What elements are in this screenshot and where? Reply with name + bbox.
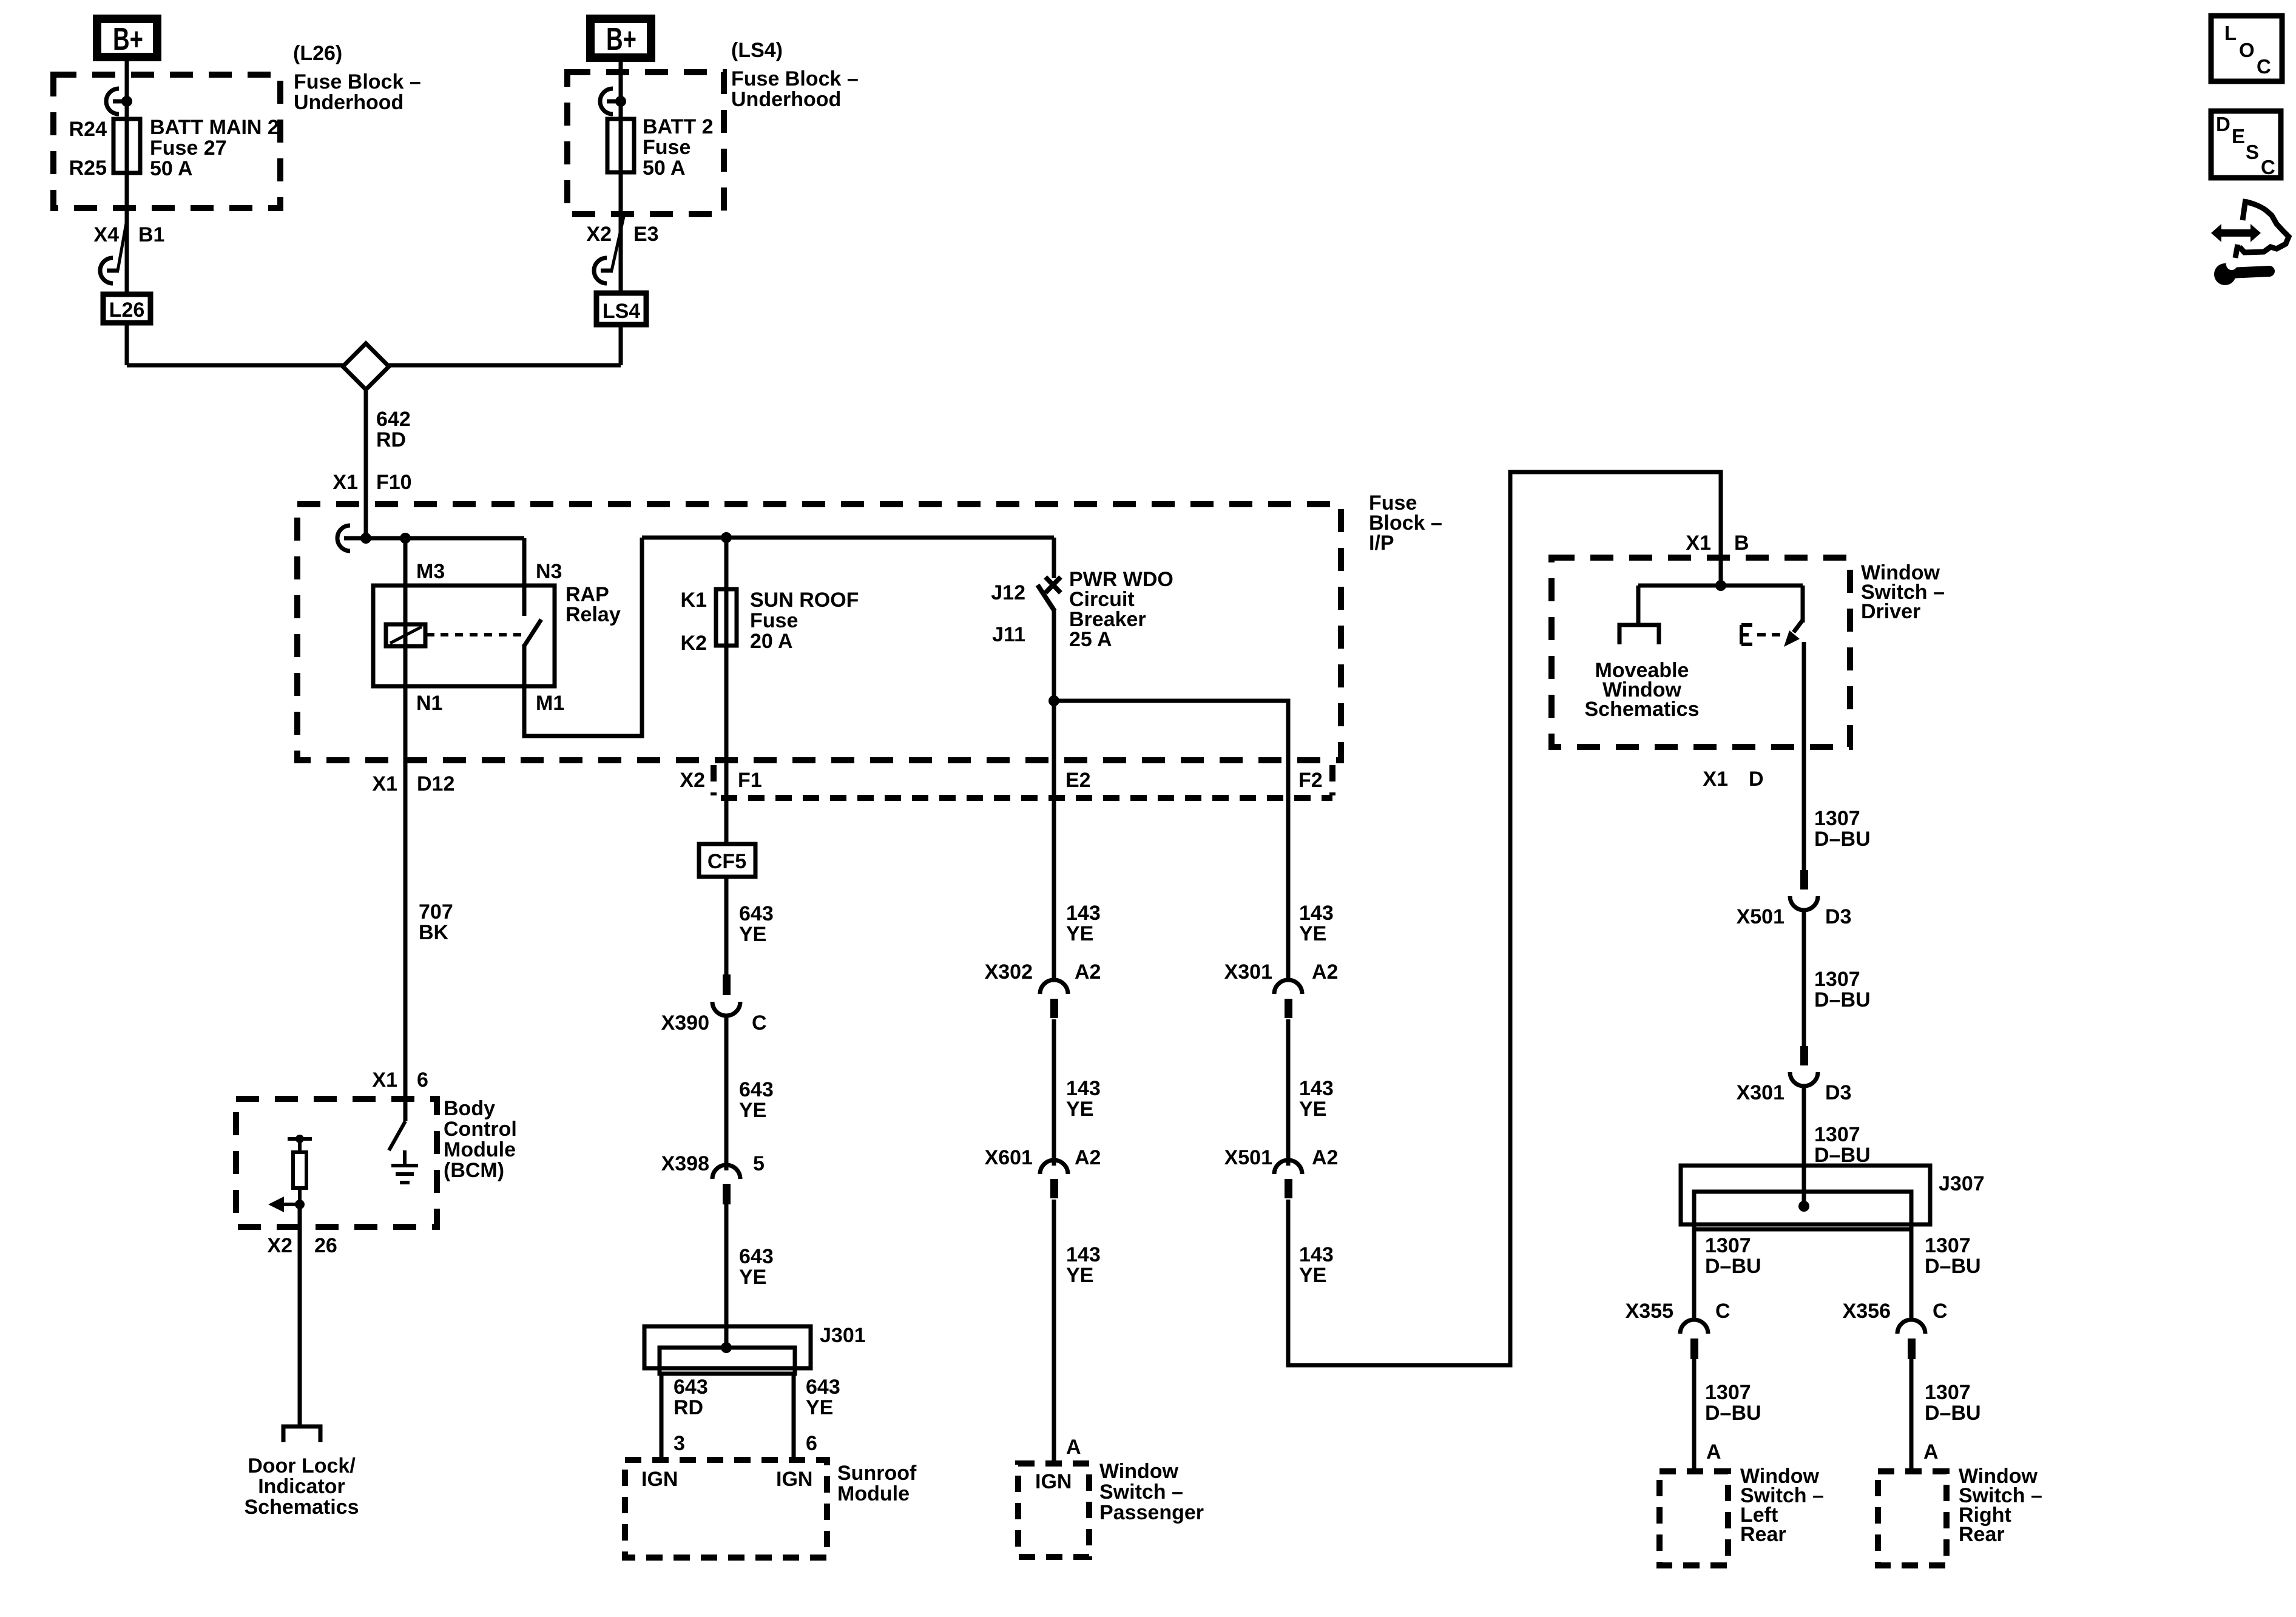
- wire 143 YE lower passenger: [1052, 1200, 1056, 1463]
- svg-text:D: D: [2216, 113, 2230, 135]
- wire 1307 D-BU right leg: [1909, 1229, 1914, 1320]
- svg-text:X398: X398: [661, 1152, 709, 1175]
- svg-text:B+: B+: [113, 22, 143, 57]
- svg-text:IGN: IGN: [1035, 1470, 1072, 1493]
- inline connector X501 A2: [1274, 1160, 1302, 1174]
- splice pack J307: [1681, 1166, 1930, 1224]
- BCM internal switch to ground: [389, 1121, 405, 1150]
- svg-text:X355: X355: [1626, 1300, 1673, 1323]
- wire driver switch output: [1802, 642, 1806, 870]
- svg-text:X356: X356: [1843, 1300, 1891, 1323]
- svg-text:Fuse: Fuse: [750, 609, 798, 632]
- wire branch to F2: [1054, 701, 1288, 978]
- power feed B+ (left): [97, 19, 157, 57]
- driver switch blade with arrow: [1794, 620, 1803, 632]
- svg-text:O: O: [2239, 39, 2255, 61]
- svg-text:(L26): (L26): [293, 42, 342, 65]
- svg-text:643: 643: [806, 1376, 840, 1399]
- svg-text:X2: X2: [267, 1234, 292, 1257]
- svg-text:(BCM): (BCM): [444, 1159, 504, 1182]
- BCM dashed box: [236, 1099, 437, 1227]
- svg-text:1307: 1307: [1925, 1381, 1971, 1404]
- svg-text:Indicator: Indicator: [258, 1475, 345, 1498]
- svg-text:X501: X501: [1737, 905, 1784, 928]
- svg-text:1307: 1307: [1705, 1381, 1751, 1404]
- sunroof module dashed box: [625, 1460, 827, 1558]
- wire 642 RD down to I/P fuse block: [364, 388, 368, 538]
- svg-text:CF5: CF5: [707, 850, 746, 873]
- wire 643 YE from F1 to CF5: [724, 760, 729, 844]
- wire 643 YE leg: [792, 1374, 796, 1460]
- svg-text:143: 143: [1299, 1243, 1334, 1266]
- svg-text:C: C: [1715, 1300, 1730, 1323]
- terminal hook at F10 entry: [337, 525, 366, 551]
- svg-text:J11: J11: [992, 623, 1025, 646]
- svg-text:X2: X2: [680, 769, 705, 792]
- window switch passenger dashed box: [1018, 1463, 1089, 1557]
- wire to relay coil M3: [403, 538, 408, 760]
- driver switch actuator E symbol: [1741, 625, 1752, 644]
- svg-text:IGN: IGN: [776, 1468, 812, 1491]
- svg-text:J12: J12: [991, 581, 1025, 604]
- svg-text:LS4: LS4: [603, 300, 640, 323]
- connector X4/B1 below fuse block: [118, 217, 127, 271]
- svg-text:6: 6: [806, 1432, 817, 1455]
- svg-text:50 A: 50 A: [643, 157, 686, 180]
- power feed B+ (right): [590, 19, 651, 58]
- wire relay M1 loop to fuse feeder: [524, 538, 642, 736]
- inline connector X390 C: [723, 974, 731, 995]
- svg-text:E3: E3: [633, 223, 659, 246]
- wire 143 YE mid F2: [1286, 1019, 1291, 1166]
- svg-text:707: 707: [419, 900, 453, 923]
- svg-text:X1: X1: [1686, 532, 1711, 555]
- circuit breaker PWR WDO 25A: [1052, 538, 1056, 578]
- driver switch internal wires: [1638, 586, 1803, 625]
- svg-text:B1: B1: [138, 223, 164, 246]
- svg-text:D3: D3: [1825, 905, 1851, 928]
- svg-text:Body: Body: [444, 1097, 495, 1120]
- svg-text:D–BU: D–BU: [1705, 1402, 1761, 1425]
- svg-text:143: 143: [1066, 902, 1101, 925]
- svg-text:X4: X4: [93, 223, 119, 246]
- svg-text:S: S: [2246, 141, 2259, 163]
- svg-text:26: 26: [314, 1234, 337, 1257]
- fuse block underhood (L26) dashed box: [53, 75, 280, 208]
- svg-text:X501: X501: [1224, 1146, 1272, 1169]
- inline connector X356 C: [1897, 1320, 1925, 1334]
- svg-text:X301: X301: [1224, 960, 1272, 984]
- svg-text:643: 643: [739, 1078, 774, 1101]
- LS4 net box: [596, 293, 646, 325]
- bus wire joining L26 and LS4: [127, 363, 621, 368]
- svg-text:A: A: [1066, 1436, 1081, 1459]
- wire 643 YE to X398: [724, 1014, 729, 1170]
- svg-text:D–BU: D–BU: [1814, 988, 1871, 1011]
- relay coil: [386, 624, 425, 646]
- svg-text:BATT 2: BATT 2: [643, 115, 713, 138]
- off-page symbol door lock: [283, 1426, 320, 1442]
- svg-text:J301: J301: [820, 1324, 866, 1347]
- svg-text:Module: Module: [837, 1482, 910, 1505]
- svg-text:643: 643: [739, 1245, 774, 1268]
- svg-text:1307: 1307: [1814, 1123, 1860, 1146]
- svg-text:Rear: Rear: [1959, 1523, 2005, 1546]
- svg-text:X390: X390: [661, 1011, 709, 1035]
- svg-text:Window: Window: [1099, 1460, 1179, 1483]
- svg-text:Control: Control: [444, 1118, 517, 1141]
- svg-text:(LS4): (LS4): [731, 39, 783, 62]
- BCM internal driver component: [288, 1139, 312, 1152]
- wire feeder to breaker: [642, 536, 1054, 540]
- fuse BATT 2 Fuse 50A: [607, 119, 634, 172]
- svg-text:M1: M1: [536, 692, 564, 715]
- svg-text:M3: M3: [416, 560, 445, 583]
- svg-text:D–BU: D–BU: [1705, 1255, 1761, 1278]
- svg-text:YE: YE: [1066, 1098, 1093, 1121]
- svg-text:143: 143: [1299, 902, 1334, 925]
- inline connector X301 D3: [1800, 1046, 1808, 1065]
- svg-text:F1: F1: [738, 769, 762, 792]
- fuse BATT MAIN 2 Fuse 27 50A: [113, 119, 140, 173]
- svg-text:Fuse: Fuse: [643, 136, 690, 159]
- svg-text:50 A: 50 A: [150, 157, 193, 180]
- wire 643 YE below CF5: [724, 877, 729, 974]
- svg-text:YE: YE: [1066, 922, 1093, 945]
- window switch right rear dashed box: [1878, 1471, 1947, 1565]
- wire B+ right down to LS4: [619, 62, 623, 293]
- svg-text:A2: A2: [1312, 960, 1338, 984]
- node: junction dot right entry: [615, 96, 626, 107]
- svg-text:BK: BK: [419, 921, 449, 944]
- svg-text:YE: YE: [739, 1099, 766, 1122]
- fuse SUN ROOF 20A: [724, 538, 729, 760]
- svg-text:L: L: [2224, 22, 2237, 44]
- node: junction dot left entry: [121, 96, 132, 107]
- svg-text:A2: A2: [1312, 1146, 1338, 1169]
- svg-text:L26: L26: [109, 299, 145, 322]
- svg-text:A2: A2: [1075, 1146, 1101, 1169]
- relay switch blade: [524, 619, 541, 647]
- svg-text:R24: R24: [69, 118, 107, 141]
- svg-text:B+: B+: [606, 22, 636, 57]
- wire L26 to bus: [125, 323, 129, 365]
- svg-text:D3: D3: [1825, 1081, 1851, 1104]
- svg-text:25 A: 25 A: [1069, 628, 1112, 651]
- off-page symbol moveable window: [1619, 625, 1659, 644]
- svg-text:C: C: [2261, 156, 2275, 178]
- svg-text:J307: J307: [1939, 1172, 1985, 1195]
- svg-text:C: C: [2257, 55, 2271, 78]
- svg-text:643: 643: [674, 1376, 708, 1399]
- inline connector X501 D3: [1800, 870, 1808, 890]
- svg-text:X1: X1: [1703, 768, 1728, 791]
- svg-text:Relay: Relay: [566, 603, 621, 626]
- svg-text:RD: RD: [376, 428, 406, 451]
- ground symbol: [391, 1150, 418, 1183]
- svg-text:RD: RD: [674, 1396, 703, 1419]
- svg-text:Fuse Block –: Fuse Block –: [294, 70, 421, 93]
- svg-text:6: 6: [417, 1068, 428, 1092]
- svg-text:E2: E2: [1065, 769, 1091, 792]
- node: F10 junction dot: [360, 533, 371, 544]
- inline connector X302 A2: [1040, 980, 1068, 994]
- svg-text:YE: YE: [806, 1396, 833, 1419]
- node: M3 branch dot: [400, 533, 411, 544]
- svg-text:A: A: [1923, 1440, 1939, 1463]
- L26 net box: [103, 294, 150, 323]
- svg-text:X1: X1: [372, 1068, 397, 1092]
- svg-text:YE: YE: [1299, 1098, 1326, 1121]
- wire 1307 D-BU mid: [1802, 909, 1806, 1046]
- wire LS4 to bus: [619, 325, 623, 365]
- svg-text:X302: X302: [985, 960, 1033, 984]
- svg-text:YE: YE: [1299, 1264, 1326, 1287]
- connector X2/E3 below fuse block: [612, 217, 624, 271]
- svg-text:D: D: [1749, 768, 1764, 791]
- svg-text:143: 143: [1066, 1243, 1101, 1266]
- svg-text:Sunroof: Sunroof: [837, 1462, 917, 1485]
- DESC icon box: [2211, 111, 2281, 178]
- svg-text:5: 5: [753, 1152, 765, 1175]
- wire B+ left down to L26: [125, 61, 129, 292]
- svg-text:A2: A2: [1075, 960, 1101, 984]
- fuse block I/P dashed box: [297, 504, 1341, 760]
- svg-text:D–BU: D–BU: [1814, 828, 1871, 851]
- wire BCM output down: [298, 1204, 302, 1426]
- wire 643 YE to J301: [724, 1204, 729, 1348]
- LOC icon box: [2211, 16, 2282, 81]
- svg-text:YE: YE: [1066, 1264, 1093, 1287]
- svg-text:Rear: Rear: [1740, 1523, 1786, 1546]
- svg-text:E: E: [2232, 125, 2245, 147]
- svg-text:Door Lock/: Door Lock/: [248, 1454, 356, 1477]
- svg-text:Driver: Driver: [1861, 600, 1920, 623]
- svg-text:643: 643: [739, 902, 774, 925]
- inline connector X301 A2: [1274, 980, 1302, 994]
- window switch left rear dashed box: [1660, 1471, 1728, 1565]
- fuse block underhood (LS4) dashed box: [567, 72, 724, 214]
- svg-text:X301: X301: [1737, 1081, 1784, 1104]
- terminal hook at fuse block entry (left): [106, 89, 127, 114]
- svg-text:Switch –: Switch –: [1099, 1480, 1183, 1504]
- wire 1307 D-BU right lower: [1909, 1359, 1914, 1471]
- svg-text:C: C: [752, 1011, 767, 1035]
- terminal hook at fuse block entry (right): [600, 89, 621, 114]
- svg-text:YE: YE: [1299, 922, 1326, 945]
- svg-text:3: 3: [674, 1432, 685, 1455]
- wire 643 RD leg: [660, 1374, 664, 1460]
- svg-text:X601: X601: [985, 1146, 1033, 1169]
- svg-text:1307: 1307: [1814, 807, 1860, 830]
- svg-text:1307: 1307: [1925, 1234, 1971, 1257]
- svg-text:C: C: [1933, 1300, 1948, 1323]
- wire 707 BK from relay N1 to BCM: [403, 760, 408, 1121]
- svg-text:Fuse 27: Fuse 27: [150, 137, 227, 160]
- wire 143 YE mid passenger: [1052, 1019, 1056, 1166]
- inline connector X398 5: [712, 1165, 740, 1179]
- svg-text:YE: YE: [739, 1266, 766, 1289]
- svg-text:K2: K2: [681, 632, 707, 655]
- svg-text:X2: X2: [586, 223, 612, 246]
- window switch driver dashed box: [1551, 558, 1850, 747]
- relay RAP box: [373, 586, 555, 686]
- moveable component icon: wrench: [2214, 263, 2236, 285]
- svg-text:1307: 1307: [1814, 968, 1860, 991]
- splice diamond: [343, 343, 389, 390]
- wire breaker output down: [1052, 609, 1056, 978]
- node: E2/F2 branch dot: [1048, 695, 1059, 706]
- svg-text:K1: K1: [681, 589, 707, 612]
- inline connector X355 C: [1680, 1320, 1708, 1334]
- svg-text:F10: F10: [376, 471, 412, 494]
- svg-text:X1: X1: [333, 471, 358, 494]
- svg-text:Underhood: Underhood: [731, 88, 841, 111]
- svg-text:YE: YE: [739, 923, 766, 946]
- svg-text:Underhood: Underhood: [294, 91, 403, 114]
- moveable component icon: double arrow: [2211, 224, 2261, 242]
- node: driver switch junction dot: [1715, 580, 1726, 591]
- svg-text:B: B: [1734, 532, 1749, 555]
- fuse block I/P notch outline: [711, 765, 717, 795]
- wire 1307 D-BU to J307: [1802, 1085, 1806, 1206]
- svg-text:Schematics: Schematics: [1585, 698, 1700, 721]
- svg-text:I/P: I/P: [1369, 532, 1394, 555]
- svg-text:R25: R25: [69, 157, 107, 180]
- svg-text:D–BU: D–BU: [1925, 1255, 1981, 1278]
- svg-text:X1: X1: [372, 772, 397, 795]
- inline connector X601 A2: [1040, 1160, 1068, 1174]
- svg-text:1307: 1307: [1705, 1234, 1751, 1257]
- svg-text:IGN: IGN: [641, 1468, 678, 1491]
- wire to relay switch N3: [522, 538, 527, 616]
- svg-text:F2: F2: [1298, 769, 1323, 792]
- svg-text:BATT MAIN 2: BATT MAIN 2: [150, 116, 279, 139]
- splice pack J301: [644, 1326, 811, 1368]
- svg-text:642: 642: [376, 408, 411, 431]
- wire 1307 D-BU left leg: [1692, 1229, 1697, 1320]
- moveable component icon: hand outline: [2235, 199, 2289, 258]
- svg-text:Schematics: Schematics: [245, 1496, 359, 1519]
- svg-text:20 A: 20 A: [750, 630, 793, 653]
- svg-text:Module: Module: [444, 1138, 516, 1161]
- wire 1307 D-BU left lower: [1692, 1359, 1697, 1471]
- svg-text:143: 143: [1066, 1077, 1101, 1100]
- svg-text:D12: D12: [417, 772, 454, 795]
- svg-text:N1: N1: [416, 692, 442, 715]
- svg-text:A: A: [1706, 1440, 1721, 1463]
- svg-text:Fuse Block –: Fuse Block –: [731, 67, 859, 90]
- relay actuation dashed link: [425, 633, 434, 636]
- node: K1 junction dot: [721, 532, 732, 543]
- svg-text:D–BU: D–BU: [1814, 1144, 1871, 1167]
- arrow to door lock schematics: [279, 1203, 300, 1206]
- svg-text:D–BU: D–BU: [1925, 1402, 1981, 1425]
- svg-text:SUN ROOF: SUN ROOF: [750, 589, 859, 612]
- svg-text:143: 143: [1299, 1077, 1334, 1100]
- svg-text:N3: N3: [536, 560, 562, 583]
- svg-text:Passenger: Passenger: [1099, 1501, 1204, 1524]
- wire 143 YE routing to driver switch: [1288, 472, 1721, 1365]
- CF5 net box: [699, 844, 755, 877]
- wire F10 entry horizontal: [366, 536, 524, 541]
